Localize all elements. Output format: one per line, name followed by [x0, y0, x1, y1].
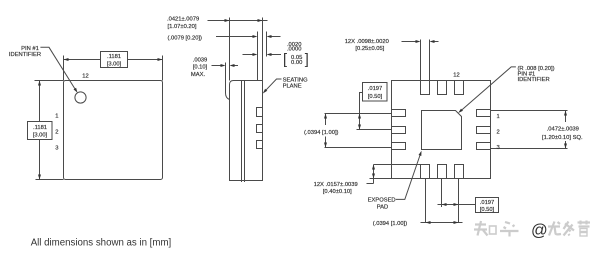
svg-text:@: @ — [531, 222, 548, 240]
top dimension label box .1181 [3.00] — [101, 52, 128, 68]
dimension arrows .0039 max — [212, 64, 239, 67]
side view lead standoff line — [226, 63, 230, 100]
pitch dimension line .0197 bottom — [438, 203, 476, 206]
bottom view top terminal pads — [421, 81, 430, 95]
exposed pad with pin1 chamfer — [422, 111, 462, 150]
thickness dimension line .0421 — [208, 19, 268, 22]
svg-text:1: 1 — [55, 114, 58, 120]
svg-text:All dimensions shown as in [mm: All dimensions shown as in [mm] — [31, 237, 172, 248]
svg-text:.0472±.0039: .0472±.0039 — [547, 127, 579, 133]
side view terminal bump 2 — [257, 125, 263, 133]
svg-text:IDENTIFIER: IDENTIFIER — [518, 77, 550, 83]
side view left extension line — [229, 18, 231, 81]
svg-text:[: [ — [283, 52, 287, 68]
svg-text:[3.00]: [3.00] — [33, 133, 48, 139]
pad length dimension 12X .0157 — [367, 165, 376, 184]
svg-text:]: ] — [305, 52, 309, 68]
pitch label box .0197 top — [363, 83, 388, 102]
exposed pad leader — [396, 151, 422, 200]
svg-text:12: 12 — [82, 74, 88, 80]
left dimension line — [38, 81, 41, 180]
svg-text:PAD: PAD — [377, 204, 389, 210]
svg-text:(.0394 [1.00]): (.0394 [1.00]) — [304, 130, 339, 136]
pitch extension line row2 — [357, 129, 392, 131]
svg-text:12X .0157±.0039: 12X .0157±.0039 — [314, 182, 358, 188]
svg-text:[0.25±0.05]: [0.25±0.05] — [355, 46, 384, 52]
svg-text:.0421±.0079: .0421±.0079 — [167, 17, 199, 23]
svg-text:(.0079 [0.20]): (.0079 [0.20]) — [168, 35, 203, 41]
side view mold lines — [241, 81, 243, 183]
pad center extension line pin3 bottom — [458, 179, 460, 223]
bottom view pin1 leader — [458, 67, 516, 113]
side view terminal bump 1 — [257, 108, 263, 117]
dimension arrow .0020/.0000 — [243, 53, 282, 56]
pitch extension line row3 — [325, 147, 392, 149]
exposed pad size dimension line .0472 — [564, 111, 567, 149]
svg-text:[0.50]: [0.50] — [368, 94, 383, 100]
svg-text:MAX.: MAX. — [191, 72, 206, 78]
svg-text:[0.10]: [0.10] — [193, 65, 208, 71]
top dimension line — [64, 58, 163, 61]
svg-text:2: 2 — [55, 130, 58, 136]
pad center extension line pin1 bottom — [425, 179, 427, 223]
svg-text:[1.20±0.10] SQ.: [1.20±0.10] SQ. — [542, 135, 583, 141]
svg-text:2: 2 — [497, 129, 500, 135]
bottom view left terminal pads — [392, 110, 406, 117]
pitch extension line row1 — [325, 113, 392, 115]
svg-text:12: 12 — [453, 73, 459, 79]
svg-text:[0.50]: [0.50] — [480, 207, 495, 213]
span dimension line .0394 bottom — [421, 221, 463, 224]
svg-text:12X .0098±.0020: 12X .0098±.0020 — [345, 39, 389, 45]
pitch dimension connector and arrows .0197 top — [358, 93, 363, 130]
row span dimension line .0394 left — [324, 114, 327, 148]
svg-text:[3.00]: [3.00] — [107, 62, 122, 68]
pad width extension lines 12X .0098 — [420, 40, 422, 81]
bottom edge extension line — [370, 178, 392, 180]
seating plane leader — [263, 79, 282, 94]
svg-text:0.00: 0.00 — [291, 60, 302, 66]
left dimension label box .1181 [3.00] — [28, 122, 53, 140]
svg-text:IDENTIFIER: IDENTIFIER — [9, 52, 41, 58]
svg-text:.0197: .0197 — [368, 86, 383, 92]
side view package body — [230, 81, 263, 181]
svg-text:.1181: .1181 — [107, 54, 121, 60]
dimension arrows .0079 — [216, 35, 281, 38]
pad length extension line — [374, 164, 421, 166]
svg-text:[0.40±0.10]: [0.40±0.10] — [323, 189, 352, 195]
exposed pad size extension lines — [491, 110, 568, 112]
watermark zhihu — [474, 221, 590, 240]
svg-text:.1181: .1181 — [33, 125, 47, 131]
pad center extension line pin2 bottom — [441, 179, 443, 208]
svg-text:3: 3 — [55, 146, 58, 152]
svg-text:.0039: .0039 — [193, 58, 208, 64]
pad width dimension arrows 12X .0098 — [402, 40, 439, 43]
side view right extension lines — [257, 32, 259, 81]
side view terminal bump 3 — [257, 141, 263, 149]
svg-text:[1.07±0.20]: [1.07±0.20] — [168, 24, 197, 30]
bottom view package outline — [392, 81, 491, 179]
svg-text:1: 1 — [497, 114, 500, 120]
svg-text:.0000: .0000 — [287, 47, 302, 53]
left dimension extension lines — [35, 80, 64, 82]
top view package body — [64, 81, 163, 180]
bottom view right terminal pads — [477, 110, 491, 117]
svg-text:(.0394 [1.00]): (.0394 [1.00]) — [373, 221, 408, 227]
svg-text:EXPOSED: EXPOSED — [368, 198, 396, 204]
svg-text:3: 3 — [497, 145, 500, 151]
pin 1 identifier leader — [40, 47, 77, 93]
bottom view bottom terminal pads — [421, 165, 430, 179]
pitch label box .0197 bottom — [476, 198, 499, 213]
pin 1 identifier circle — [75, 92, 86, 103]
svg-text:.0197: .0197 — [480, 200, 495, 206]
svg-text:PLANE: PLANE — [283, 83, 302, 89]
bracket glyphs for 0.05/0.00 — [283, 52, 309, 68]
top dimension extension lines — [63, 56, 65, 81]
annotation texts — [9, 17, 583, 228]
